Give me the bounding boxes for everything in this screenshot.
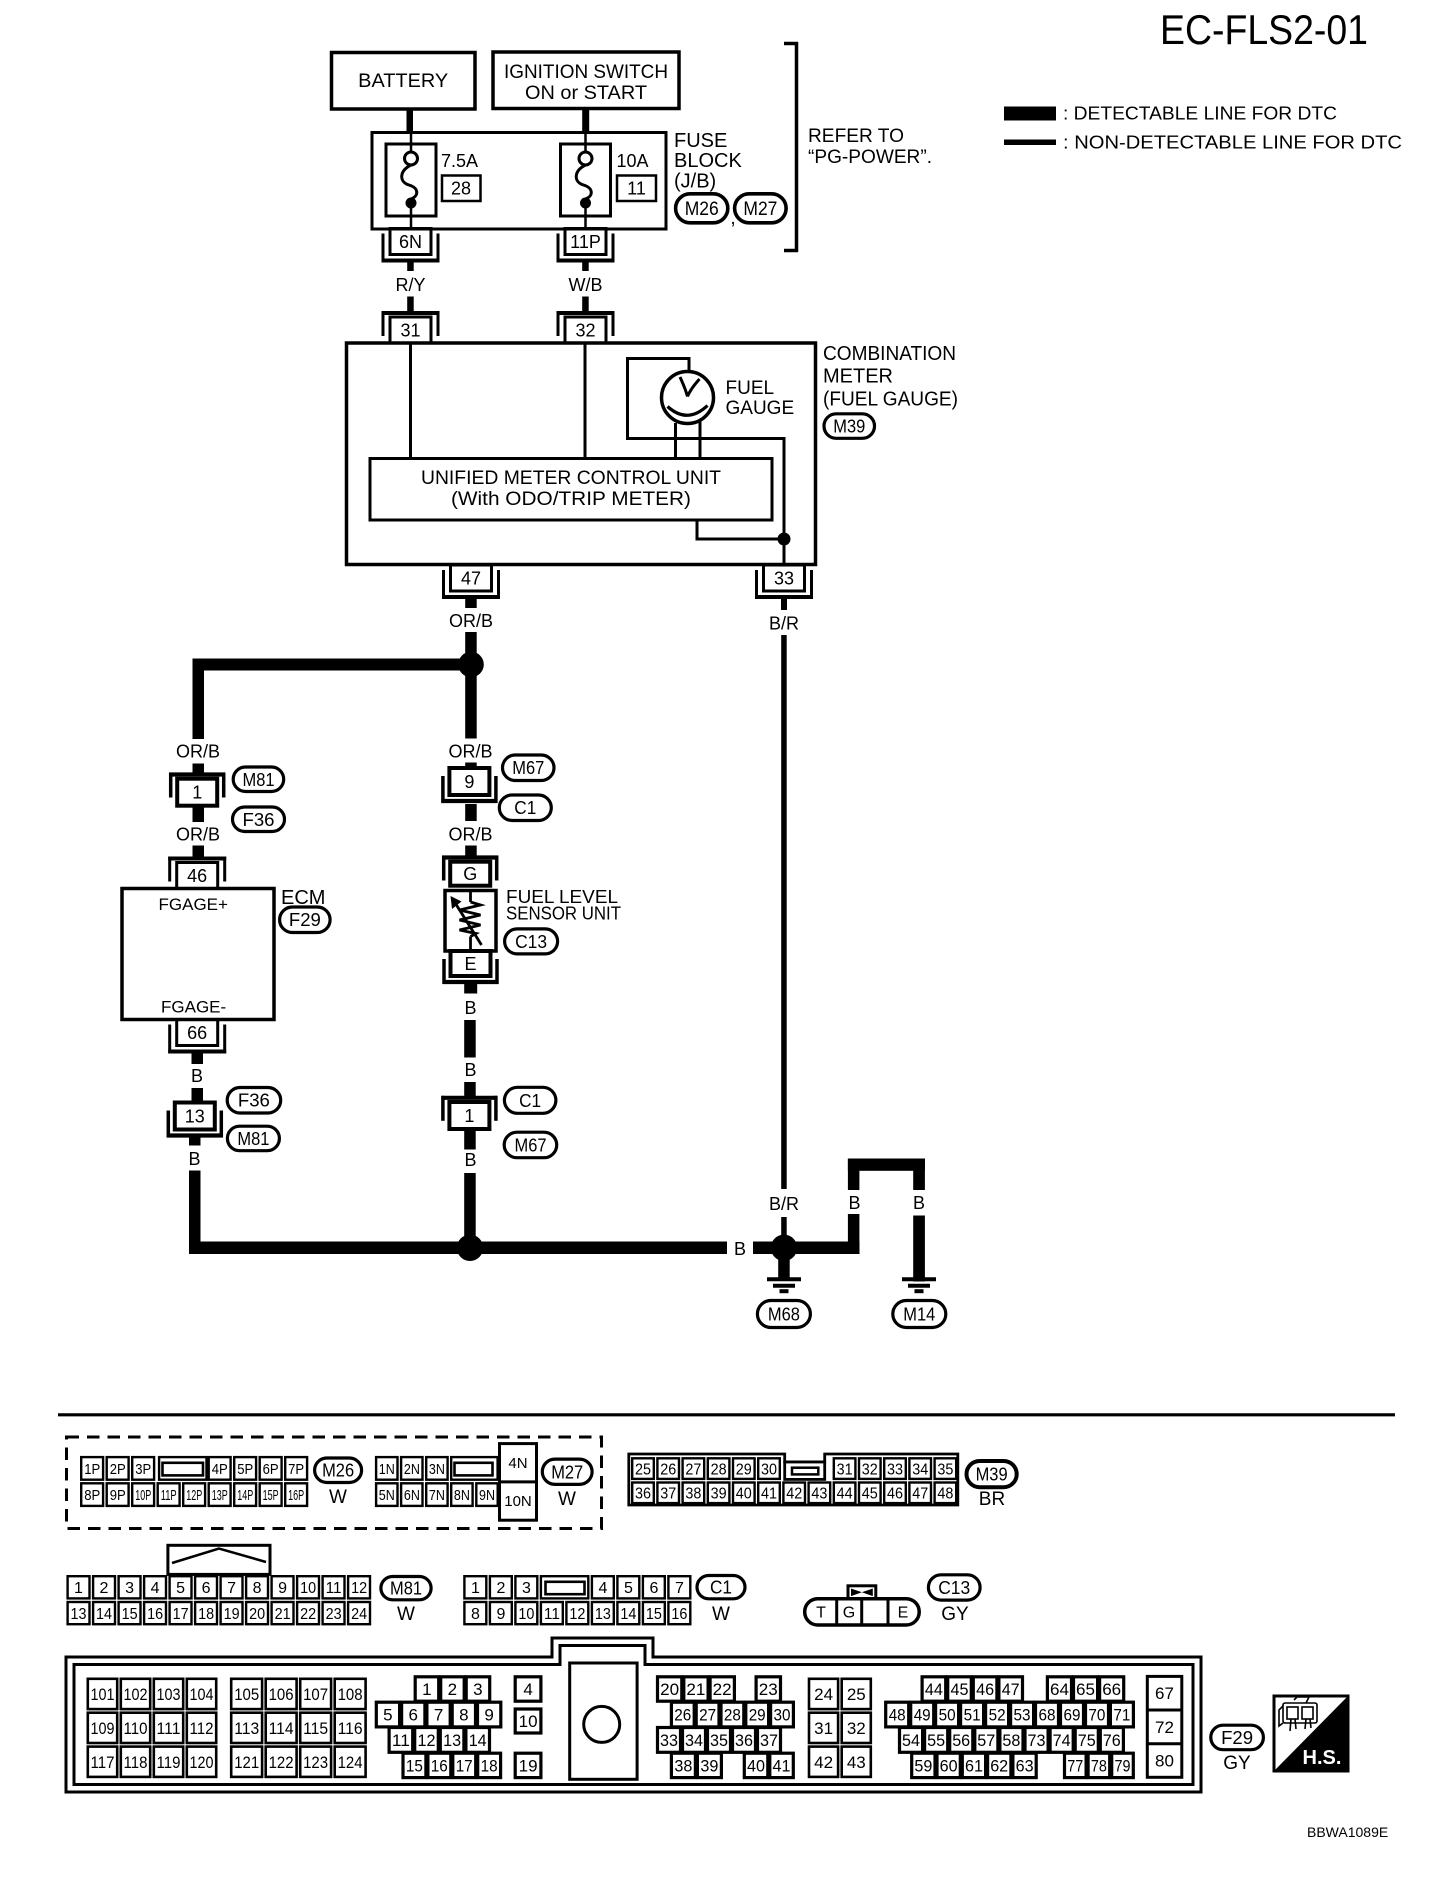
svg-text:32: 32: [575, 321, 595, 341]
svg-text:54: 54: [902, 1731, 920, 1750]
F29 block 24-43 2x3: [809, 1679, 871, 1777]
svg-text:B: B: [191, 1066, 203, 1086]
svg-text:27: 27: [699, 1706, 716, 1725]
svg-text:11: 11: [544, 1606, 560, 1623]
svg-text:B: B: [464, 998, 476, 1018]
svg-text:10N: 10N: [504, 1493, 532, 1510]
svg-text:B/R: B/R: [769, 1194, 799, 1214]
connector 11P: [557, 229, 615, 263]
svg-text:F29: F29: [289, 910, 321, 930]
svg-text:110: 110: [124, 1719, 148, 1738]
wire stub above 32: [582, 297, 589, 312]
svg-text:2: 2: [496, 1580, 505, 1597]
svg-text:IGNITION SWITCH: IGNITION SWITCH: [504, 62, 668, 83]
svg-text:3: 3: [473, 1680, 482, 1699]
svg-text:33: 33: [774, 569, 794, 589]
svg-text:24: 24: [351, 1606, 367, 1623]
connector ref F29 oval: [280, 907, 331, 933]
svg-text:32: 32: [862, 1461, 878, 1478]
svg-text:31: 31: [814, 1719, 833, 1738]
fuse block detail dashed box: [67, 1437, 602, 1529]
svg-text:1: 1: [471, 1580, 480, 1597]
ground ref M68 oval: [757, 1301, 810, 1328]
F29 pyramid 20-43: [658, 1677, 794, 1778]
svg-text:E: E: [464, 954, 476, 974]
svg-text:57: 57: [977, 1731, 995, 1750]
ECM connector F29 shell: [66, 1638, 1201, 1792]
svg-text:B: B: [848, 1193, 860, 1213]
svg-text:2P: 2P: [110, 1461, 126, 1478]
connector ref C13 oval bottom: [928, 1575, 980, 1600]
fuse 7.5A box: [386, 144, 436, 216]
svg-text:102: 102: [124, 1685, 148, 1704]
svg-text:C13: C13: [938, 1578, 970, 1598]
svg-text:76: 76: [1103, 1731, 1121, 1750]
svg-text:25: 25: [635, 1461, 651, 1478]
svg-text:32: 32: [847, 1719, 866, 1738]
junction node in meter: [778, 533, 791, 546]
svg-text:44: 44: [837, 1486, 853, 1503]
svg-text:37: 37: [760, 1731, 778, 1750]
wire label B branch left: [845, 1190, 862, 1214]
svg-text:14P: 14P: [237, 1487, 253, 1504]
svg-text:F36: F36: [238, 1091, 270, 1111]
F29 pyramid 1-19: [376, 1677, 541, 1778]
svg-text:G: G: [463, 864, 477, 884]
svg-text:8: 8: [471, 1606, 480, 1623]
svg-text:BBWA1089E: BBWA1089E: [1307, 1824, 1388, 1840]
legend non-detectable line sample: [1004, 140, 1056, 146]
legend detectable line sample: [1004, 107, 1056, 121]
wire stub below 11P: [582, 262, 589, 271]
connector M26 pin grid: [81, 1457, 307, 1506]
wire M14 branch: [848, 1159, 925, 1282]
connector M81 keyway roof: [168, 1545, 270, 1574]
svg-text:5: 5: [383, 1706, 392, 1725]
connector G: [442, 856, 498, 886]
svg-text:42: 42: [786, 1486, 802, 1503]
svg-text:36: 36: [735, 1731, 753, 1750]
svg-text:OR/B: OR/B: [449, 611, 493, 631]
ignition switch label: [504, 62, 668, 104]
connector ref C1 oval lower: [504, 1087, 556, 1113]
fuse 10A symbol: [576, 134, 592, 229]
svg-text:7P: 7P: [288, 1461, 304, 1478]
connector ref M67 oval: [503, 755, 555, 781]
svg-text:7.5A: 7.5A: [441, 151, 478, 171]
svg-text:62: 62: [990, 1757, 1008, 1776]
wire stub above G: [465, 846, 477, 857]
svg-text:UNIFIED METER CONTROL UNIT: UNIFIED METER CONTROL UNIT: [421, 468, 721, 489]
wire stub below E: [464, 983, 477, 994]
connector ref M39 oval: [824, 414, 875, 439]
svg-text:15: 15: [646, 1606, 662, 1623]
fuse 10A box: [561, 144, 611, 216]
svg-text:56: 56: [952, 1731, 970, 1750]
thick wire left down to bottom bus: [189, 1171, 201, 1255]
svg-text:8: 8: [459, 1706, 468, 1725]
svg-text:1: 1: [422, 1680, 431, 1699]
svg-text:59: 59: [914, 1757, 932, 1776]
svg-text:65: 65: [1076, 1680, 1095, 1699]
ECM box: [122, 889, 274, 1020]
fuel gauge wires to control unit: [676, 421, 701, 459]
wire ignition to fuse block: [582, 109, 589, 134]
svg-text:FGAGE-: FGAGE-: [161, 998, 226, 1017]
svg-text:19: 19: [519, 1757, 538, 1776]
fuel gauge sub-box: [628, 359, 785, 534]
svg-text:B: B: [464, 1150, 476, 1170]
svg-text:W: W: [329, 1487, 347, 1508]
connector ref M81 oval: [233, 767, 284, 792]
svg-text:C13: C13: [515, 932, 547, 952]
svg-text:M81: M81: [237, 1129, 269, 1149]
svg-text:16: 16: [671, 1606, 687, 1623]
svg-text:48: 48: [937, 1486, 953, 1503]
svg-text:W: W: [712, 1604, 730, 1625]
svg-text:BR: BR: [979, 1489, 1005, 1510]
svg-text:14: 14: [620, 1606, 636, 1623]
svg-text:15P: 15P: [263, 1487, 279, 1504]
fuel gauge label: [726, 378, 795, 419]
svg-text:BATTERY: BATTERY: [358, 71, 448, 92]
connector 46: [168, 857, 226, 889]
wire stub OR/B to node: [465, 632, 477, 653]
svg-text:38: 38: [685, 1486, 701, 1503]
svg-text:2: 2: [100, 1580, 109, 1597]
wire stub below 47: [465, 599, 477, 609]
wire stub B/R to node: [781, 1217, 787, 1237]
svg-text:BLOCK: BLOCK: [674, 150, 742, 172]
combination meter label: [823, 343, 958, 411]
wire stub above 46: [193, 846, 205, 857]
svg-text:33: 33: [660, 1731, 678, 1750]
svg-text:9: 9: [484, 1706, 493, 1725]
svg-text:113: 113: [234, 1719, 259, 1738]
svg-text:15: 15: [122, 1606, 138, 1623]
wire stub above 13: [192, 1088, 204, 1103]
svg-text:8: 8: [253, 1580, 262, 1597]
svg-text:13P: 13P: [212, 1487, 228, 1504]
svg-text:29: 29: [749, 1706, 766, 1725]
svg-text:10: 10: [300, 1580, 316, 1597]
wire B/R down to ground node: [781, 635, 787, 1189]
connector ref C13 oval: [505, 929, 558, 954]
svg-text:104: 104: [190, 1685, 214, 1704]
svg-text:FUSE: FUSE: [674, 130, 727, 152]
battery box: [332, 53, 476, 110]
svg-text:COMBINATION: COMBINATION: [823, 343, 956, 365]
svg-text:T: T: [816, 1605, 826, 1622]
svg-text:2N: 2N: [404, 1461, 420, 1478]
svg-text:40: 40: [747, 1757, 765, 1776]
svg-text:77: 77: [1067, 1757, 1083, 1776]
svg-text:80: 80: [1155, 1752, 1174, 1771]
svg-text:118: 118: [124, 1753, 148, 1772]
svg-text:9: 9: [278, 1580, 287, 1597]
svg-text:116: 116: [338, 1719, 363, 1738]
svg-text:1: 1: [74, 1580, 83, 1597]
thick wire horizontal to left branch: [193, 659, 472, 671]
svg-text:38: 38: [674, 1757, 692, 1776]
svg-text:OR/B: OR/B: [448, 825, 492, 845]
svg-text:123: 123: [303, 1753, 328, 1772]
svg-text:9: 9: [464, 772, 474, 792]
svg-text:71: 71: [1113, 1706, 1130, 1725]
connector C13 keyway bowtie: [848, 1586, 876, 1599]
svg-text:7: 7: [434, 1706, 443, 1725]
connector C13 pin strip: [805, 1599, 920, 1625]
svg-text:C1: C1: [519, 1091, 541, 1111]
svg-text:117: 117: [91, 1753, 115, 1772]
F29 right column 67 72 80: [1147, 1676, 1182, 1777]
connector ref F36 oval lower: [227, 1088, 281, 1114]
svg-text:111: 111: [157, 1719, 181, 1738]
svg-text:C1: C1: [710, 1578, 732, 1598]
svg-text:46: 46: [887, 1486, 903, 1503]
svg-text:M39: M39: [833, 417, 865, 437]
svg-text:44: 44: [925, 1680, 943, 1699]
connector C1 pin grid: [464, 1576, 690, 1624]
svg-text:17: 17: [456, 1757, 473, 1776]
connector 6N: [382, 229, 440, 263]
svg-text:12P: 12P: [186, 1487, 202, 1504]
inline connector 1 M81-F36: [169, 773, 225, 806]
bottom bus wire left segment: [189, 1242, 727, 1255]
svg-text:F36: F36: [243, 810, 275, 830]
svg-text:5: 5: [624, 1580, 633, 1597]
svg-text:35: 35: [710, 1731, 728, 1750]
svg-text:124: 124: [338, 1753, 363, 1772]
wire stub above 1: [464, 1082, 476, 1098]
svg-text:: DETECTABLE LINE FOR DTC: : DETECTABLE LINE FOR DTC: [1063, 104, 1337, 124]
svg-text:14: 14: [96, 1606, 112, 1623]
svg-text:FGAGE+: FGAGE+: [159, 895, 229, 914]
svg-text:3N: 3N: [429, 1461, 445, 1478]
svg-text:6: 6: [202, 1580, 211, 1597]
wire stub below 9: [465, 804, 477, 821]
svg-text:51: 51: [964, 1706, 981, 1725]
wire 32 to unified meter control unit: [584, 343, 587, 459]
svg-text:: NON-DETECTABLE LINE FOR DTC: : NON-DETECTABLE LINE FOR DTC: [1063, 133, 1402, 153]
wire stub to connector 1: [193, 764, 205, 775]
svg-text:8P: 8P: [84, 1487, 100, 1504]
svg-text:10P: 10P: [135, 1487, 151, 1504]
svg-text:11: 11: [392, 1731, 410, 1750]
svg-text:79: 79: [1115, 1757, 1131, 1776]
fuse block J/B box: [372, 133, 666, 230]
wire stub below 1: [464, 1129, 476, 1150]
separator line: [58, 1413, 1395, 1416]
svg-text:25: 25: [847, 1685, 866, 1704]
svg-text:109: 109: [91, 1719, 115, 1738]
svg-text:M68: M68: [768, 1305, 800, 1325]
svg-text:M39: M39: [976, 1465, 1008, 1485]
svg-text:B: B: [734, 1239, 746, 1259]
svg-text:27: 27: [685, 1461, 701, 1478]
svg-text:16: 16: [147, 1606, 163, 1623]
connector M27 pin grid: [376, 1444, 536, 1521]
svg-text:103: 103: [157, 1685, 181, 1704]
svg-text:GY: GY: [941, 1604, 969, 1625]
svg-text:11: 11: [627, 179, 646, 199]
wire segment B middle: [464, 1020, 476, 1058]
inline connector 1 C1-M67: [441, 1096, 497, 1129]
refer-to bracket: [784, 42, 798, 252]
fuse block label: [674, 130, 742, 193]
wire stub below 13: [189, 1137, 201, 1146]
connector M81 pin grid: [68, 1576, 370, 1624]
connector ref M39 oval bottom: [967, 1461, 1017, 1487]
connector 66: [168, 1020, 226, 1054]
unified meter control unit box: [370, 459, 772, 521]
unified meter control unit label: [421, 468, 721, 510]
svg-text:23: 23: [326, 1606, 342, 1623]
svg-text:58: 58: [1002, 1731, 1020, 1750]
bottom bus wire right segment: [753, 1242, 860, 1255]
svg-text:15: 15: [406, 1757, 423, 1776]
svg-text:112: 112: [190, 1719, 214, 1738]
svg-text:22: 22: [300, 1606, 316, 1623]
connector 47: [442, 565, 500, 599]
svg-text:7: 7: [675, 1580, 684, 1597]
svg-text:GAUGE: GAUGE: [726, 398, 795, 419]
svg-text:M26: M26: [322, 1461, 354, 1481]
svg-text:47: 47: [912, 1486, 928, 1503]
svg-text:4: 4: [598, 1580, 607, 1597]
svg-text:B/R: B/R: [769, 614, 799, 634]
svg-text:W: W: [558, 1489, 576, 1510]
svg-text:6N: 6N: [399, 232, 422, 252]
svg-text:2: 2: [448, 1680, 457, 1699]
ground ref M14 oval: [893, 1301, 946, 1328]
F29 center post: [570, 1663, 637, 1779]
svg-text:24: 24: [814, 1685, 833, 1704]
svg-text:63: 63: [1016, 1757, 1034, 1776]
svg-text:3: 3: [125, 1580, 134, 1597]
connector ref M27 oval: [735, 194, 787, 223]
svg-text:121: 121: [234, 1753, 259, 1772]
fuse 7.5A symbol: [402, 134, 418, 229]
ground M68: [767, 1277, 801, 1281]
svg-text:B: B: [913, 1193, 925, 1213]
svg-text:23: 23: [759, 1680, 778, 1699]
svg-text:11P: 11P: [570, 232, 601, 252]
wire battery to fuse block: [407, 109, 414, 133]
svg-text:1: 1: [464, 1106, 474, 1126]
svg-text:106: 106: [269, 1685, 294, 1704]
svg-text:67: 67: [1155, 1684, 1174, 1703]
thick wire node to 9: [465, 665, 477, 739]
svg-text:14: 14: [469, 1731, 487, 1750]
svg-text:42: 42: [814, 1753, 833, 1772]
svg-text:70: 70: [1088, 1706, 1105, 1725]
svg-text:M27: M27: [743, 199, 777, 220]
svg-text:72: 72: [1155, 1718, 1174, 1737]
junction node B/R ground: [771, 1235, 797, 1261]
svg-text:33: 33: [887, 1461, 903, 1478]
svg-text:M27: M27: [551, 1462, 583, 1482]
connector ref C1 oval bottom: [697, 1576, 745, 1599]
connector 32: [557, 311, 615, 343]
svg-text:13: 13: [595, 1606, 611, 1623]
svg-text:45: 45: [862, 1486, 878, 1503]
connector ref M27 oval bottom: [542, 1459, 592, 1484]
svg-text:39: 39: [711, 1486, 727, 1503]
svg-text:11P: 11P: [161, 1487, 177, 1504]
inline connector 9 M67-C1: [441, 768, 497, 803]
wire stub to ground M68: [778, 1254, 790, 1278]
svg-text:5N: 5N: [379, 1487, 395, 1504]
svg-text:12: 12: [418, 1731, 436, 1750]
svg-text:SENSOR UNIT: SENSOR UNIT: [506, 904, 621, 924]
svg-text:H.S.: H.S.: [1303, 1747, 1342, 1769]
svg-text:4N: 4N: [508, 1455, 527, 1472]
svg-text:69: 69: [1064, 1706, 1081, 1725]
svg-text:30: 30: [774, 1706, 791, 1725]
svg-text:B: B: [464, 1060, 476, 1080]
svg-text:13: 13: [185, 1107, 205, 1127]
svg-text:W: W: [397, 1604, 415, 1625]
svg-text:20: 20: [249, 1606, 265, 1623]
svg-text:6N: 6N: [404, 1487, 420, 1504]
H.S. data link badge: [1274, 1696, 1348, 1771]
svg-text:49: 49: [914, 1706, 931, 1725]
svg-text:5: 5: [176, 1580, 185, 1597]
svg-text:1N: 1N: [379, 1461, 395, 1478]
svg-text:28: 28: [711, 1461, 727, 1478]
svg-text:20: 20: [660, 1680, 679, 1699]
connector ref C1 oval: [499, 795, 551, 821]
inline connector 13 F36-M81: [167, 1103, 223, 1138]
wire label B/R lower: [766, 1192, 802, 1214]
svg-text:G: G: [843, 1605, 855, 1622]
svg-text:EC-FLS2-01: EC-FLS2-01: [1160, 6, 1368, 53]
svg-text:26: 26: [674, 1706, 691, 1725]
wire umcu to node: [697, 520, 784, 539]
svg-text:OR/B: OR/B: [176, 742, 220, 762]
svg-text:W/B: W/B: [569, 275, 603, 295]
wire label B branch right: [910, 1190, 927, 1214]
svg-text:115: 115: [303, 1719, 328, 1738]
svg-text:50: 50: [939, 1706, 956, 1725]
svg-text:8N: 8N: [454, 1487, 470, 1504]
svg-text:46: 46: [187, 866, 207, 886]
svg-text:(J/B): (J/B): [674, 171, 716, 193]
svg-text:13: 13: [443, 1731, 461, 1750]
svg-text:M67: M67: [515, 1136, 547, 1156]
svg-text:46: 46: [976, 1680, 994, 1699]
variable resistor symbol: [451, 891, 482, 952]
svg-text:M14: M14: [903, 1305, 935, 1325]
svg-text:6: 6: [649, 1580, 658, 1597]
svg-text:16: 16: [431, 1757, 448, 1776]
svg-text:36: 36: [635, 1486, 651, 1503]
svg-text:M67: M67: [512, 758, 544, 778]
svg-text:R/Y: R/Y: [395, 275, 425, 295]
wire stub below 66: [192, 1053, 204, 1065]
svg-text:43: 43: [847, 1753, 866, 1772]
svg-text:66: 66: [187, 1023, 207, 1043]
wire stub below connector 1: [193, 808, 205, 823]
fuel level sensor label: [506, 887, 621, 924]
svg-text:6: 6: [408, 1706, 417, 1725]
svg-text:35: 35: [937, 1461, 953, 1478]
svg-text:3P: 3P: [135, 1461, 151, 1478]
junction node B middle: [457, 1235, 483, 1261]
connector M39 pin grid: [629, 1454, 958, 1505]
svg-text:28: 28: [451, 179, 471, 199]
